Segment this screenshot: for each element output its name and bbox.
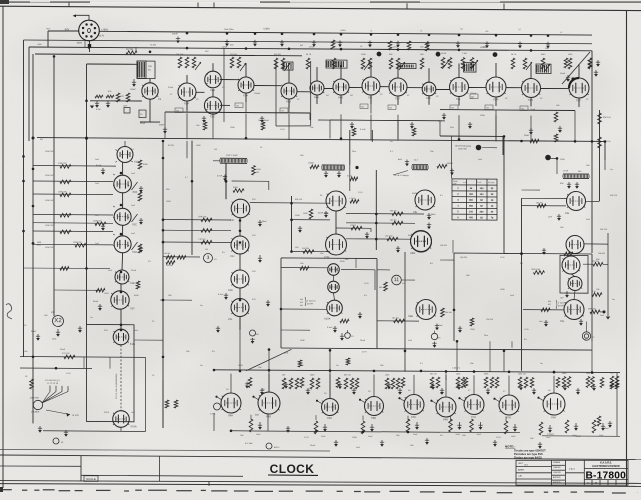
wire top row link2 xyxy=(254,84,281,86)
wire tube VR1 grid xyxy=(522,197,567,199)
wire VZB3 xyxy=(407,416,409,421)
meter P3 xyxy=(345,333,351,339)
capacitor CZB8 xyxy=(575,423,577,428)
svg-text:15K 1W: 15K 1W xyxy=(592,261,599,263)
svg-text:GND: GND xyxy=(52,339,57,341)
arrow T3 xyxy=(451,169,453,173)
resistor RZ22 xyxy=(586,376,590,387)
tube V5 X3A xyxy=(238,77,254,93)
resistor R5000 xyxy=(437,164,447,168)
resistor R330 xyxy=(233,189,244,193)
registration tick T4 xyxy=(406,3,408,9)
svg-text:100K: 100K xyxy=(310,375,315,377)
resistor RT6 xyxy=(274,58,278,69)
svg-text:1 KO: 1 KO xyxy=(524,329,529,331)
box right outline xyxy=(454,253,592,342)
resistor right R47K xyxy=(592,293,602,297)
junction dot J65 xyxy=(239,229,242,232)
svg-text:104 2W: 104 2W xyxy=(460,257,467,259)
resistor RB2 xyxy=(394,319,405,323)
tube VL1 X1B xyxy=(114,175,132,193)
tube VB0 xyxy=(566,235,584,253)
junction dot J14 xyxy=(547,34,550,37)
resistor RZ7 xyxy=(355,378,359,389)
junction dot J5 xyxy=(281,32,284,35)
capacitor extra CE17 xyxy=(426,438,428,442)
wire V1 top xyxy=(149,79,151,83)
svg-text:200.0: 200.0 xyxy=(104,412,110,414)
wire extra W1 xyxy=(212,112,214,138)
resistor RL5 xyxy=(60,230,71,234)
wire extra W4 xyxy=(397,121,399,139)
registration tick T1 xyxy=(68,2,70,7)
capacitor C1 10uF xyxy=(177,37,179,41)
tube VZ6 X7A xyxy=(464,394,484,414)
svg-text:30mF: 30mF xyxy=(431,214,437,216)
tube VB4 xyxy=(416,299,436,319)
tube VB1 xyxy=(328,264,340,276)
circle node 11 xyxy=(392,275,402,285)
resistor RT18 xyxy=(470,57,474,68)
ground X2 xyxy=(57,329,59,334)
svg-text:1m: 1m xyxy=(612,299,615,301)
svg-text:TRACED: TRACED xyxy=(553,466,561,469)
svg-text:10mF: 10mF xyxy=(530,109,536,111)
diagonal wire xyxy=(246,349,292,371)
master switch S1 xyxy=(33,400,42,409)
junction dot J51 xyxy=(473,370,476,373)
svg-text:X8M: X8M xyxy=(410,251,415,255)
capacitor extra CE2 xyxy=(351,122,353,126)
svg-text:X2L: X2L xyxy=(521,108,524,110)
wire top row link6 xyxy=(506,87,522,89)
capacitor CZ6 xyxy=(520,384,522,388)
wire rail y431 ext xyxy=(440,431,520,434)
capacitor extra CE16 xyxy=(381,440,383,444)
capacitor bus C9 xyxy=(397,41,399,45)
junction dot J13 xyxy=(530,34,533,37)
capacitor CZB5 xyxy=(480,422,482,427)
svg-text:1K 5W: 1K 5W xyxy=(480,47,486,49)
wire rail y357 xyxy=(20,355,146,358)
resistor RU1 xyxy=(331,40,335,49)
wire extra W3 xyxy=(329,120,331,138)
svg-text:X2L: X2L xyxy=(486,107,489,109)
capacitor bus C12 xyxy=(486,41,488,45)
switch arrow TO V29 xyxy=(46,410,70,414)
svg-text:NOTE:-: NOTE:- xyxy=(505,445,515,449)
svg-text:ELECTRONICS DIVISION: ELECTRONICS DIVISION xyxy=(592,466,620,468)
bottom scan edge dashes xyxy=(2,490,638,493)
svg-text:X2K: X2K xyxy=(228,288,233,292)
svg-text:11: 11 xyxy=(394,277,400,283)
wire rail y136 right xyxy=(440,135,503,137)
gridcap VZ5 xyxy=(432,401,437,404)
svg-text:1 KO: 1 KO xyxy=(500,257,505,259)
junction dot J69 xyxy=(55,367,58,370)
tube VZ3 X9B xyxy=(365,396,384,415)
tube VZ1 X8B xyxy=(258,392,280,414)
resistor RZ3 xyxy=(310,378,314,389)
wire ladder rail 3 xyxy=(33,213,113,216)
capacitor CZB2 xyxy=(371,424,373,429)
label box LB2 xyxy=(280,108,288,113)
junction dot K2 xyxy=(120,233,123,236)
svg-text:5000 4W: 5000 4W xyxy=(588,308,596,310)
wire V1 in xyxy=(90,100,142,103)
junction dot J18 xyxy=(340,48,343,51)
mid tube VM2 xyxy=(231,236,249,254)
svg-text:1MO: 1MO xyxy=(568,54,573,56)
svg-text:X32A: X32A xyxy=(130,424,137,428)
label box LB1 xyxy=(235,103,243,108)
resistor RTR1 xyxy=(564,58,568,68)
junction dot J28 xyxy=(85,99,88,102)
capacitor CZ5 xyxy=(458,383,460,387)
resistor extra RE11 xyxy=(60,267,69,271)
wire VZ8 top xyxy=(553,376,555,393)
delay transformer T2 xyxy=(322,164,345,166)
svg-text:X5A: X5A xyxy=(551,415,556,419)
tube VL5 X1F xyxy=(111,291,129,310)
resistor RR1 xyxy=(537,204,546,208)
wire ladder rail 5 xyxy=(33,230,113,233)
svg-text:27mF: 27mF xyxy=(217,175,223,177)
svg-text:3: 3 xyxy=(207,255,210,261)
wire drop x224 xyxy=(223,48,225,122)
resistor pair RH2 xyxy=(166,261,175,265)
box small right xyxy=(560,255,588,293)
tube V9 X2I xyxy=(362,77,380,95)
svg-text:CLOCK: CLOCK xyxy=(270,462,315,476)
capacitor C31 30uF xyxy=(530,128,532,132)
junction dot K10 xyxy=(404,350,407,353)
wire mid vert x349 xyxy=(349,130,351,165)
wire mid col c xyxy=(239,288,241,299)
svg-text:24.3: 24.3 xyxy=(414,159,418,161)
svg-text:25mF: 25mF xyxy=(360,340,366,342)
tube VZ5 X6B xyxy=(436,397,456,417)
svg-text:100K 2W: 100K 2W xyxy=(45,225,53,227)
svg-text:20.5K: 20.5K xyxy=(441,53,447,55)
svg-text:X4B: X4B xyxy=(408,314,413,318)
delay line DL2 xyxy=(536,64,551,74)
wire tube VR1 res xyxy=(522,205,567,207)
margin handwriting xyxy=(6,304,12,319)
svg-text:10K 4W: 10K 4W xyxy=(445,312,452,314)
svg-text:30mF: 30mF xyxy=(60,349,66,351)
svg-text:X2L: X2L xyxy=(176,110,179,112)
tube V13 X2M xyxy=(486,77,506,97)
svg-text:24.7K: 24.7K xyxy=(511,54,517,56)
resistor RZ12 xyxy=(436,377,440,388)
svg-text:1W: 1W xyxy=(256,172,259,174)
svg-text:30mF: 30mF xyxy=(524,135,530,137)
resistor RTR2 xyxy=(588,58,592,68)
border frame left line xyxy=(2,6,4,488)
svg-text:100K 2W: 100K 2W xyxy=(45,175,53,177)
junction dot J54 xyxy=(591,371,594,374)
resistor R20K a xyxy=(598,113,602,124)
wire extra W36 xyxy=(186,141,188,158)
wire V5 cath xyxy=(245,93,247,102)
bottom strip divider xyxy=(80,456,82,482)
junction dot J45 xyxy=(375,222,378,225)
svg-text:100K: 100K xyxy=(295,215,300,217)
svg-text:Observe phasing: Observe phasing xyxy=(455,145,472,148)
capacitor CZ4 xyxy=(432,383,434,387)
junction dot J35 xyxy=(85,137,88,140)
svg-text:100K 1W: 100K 1W xyxy=(518,374,526,376)
wire left col v4 xyxy=(121,253,124,270)
wire T1 down xyxy=(225,163,227,199)
wire VZ4 top xyxy=(413,375,415,395)
wire mid vert x226 xyxy=(225,164,227,199)
resistor RT22 xyxy=(568,58,572,69)
wire VZ3 top xyxy=(373,375,375,397)
junction dot big2 xyxy=(436,52,441,57)
wire V14 cath xyxy=(530,98,532,107)
tube V14 X2N xyxy=(522,78,541,97)
capacitor bottom extra xyxy=(261,388,263,392)
svg-text:0.1mF: 0.1mF xyxy=(360,129,366,131)
junction dot K17 xyxy=(162,356,165,359)
wire extra W33 xyxy=(452,240,454,253)
wire extra W24 xyxy=(288,99,290,113)
capacitor CZ0 xyxy=(246,382,248,386)
junction dot K4 xyxy=(120,291,123,294)
svg-text:100KC: 100KC xyxy=(130,89,137,91)
resistor extra RE6 xyxy=(340,319,349,323)
svg-text:500 1W: 500 1W xyxy=(390,210,397,212)
resistor RT2 xyxy=(185,57,189,68)
svg-text:25m: 25m xyxy=(484,335,488,337)
wire VZ1 top xyxy=(268,374,270,392)
svg-text:APPRVD: APPRVD xyxy=(553,476,561,479)
wire extra W8 xyxy=(604,160,606,170)
wire V6 cath xyxy=(288,99,290,108)
border frame top line xyxy=(0,6,641,10)
resistor RM3 xyxy=(201,240,212,244)
tube VZ8 X5A xyxy=(543,393,565,415)
junction dot J49 xyxy=(373,370,376,373)
svg-text:X7A: X7A xyxy=(471,415,476,419)
svg-text:272,74,138 mS (MODIFIED): 272,74,138 mS (MODIFIED) xyxy=(116,373,118,399)
resistor RT10 xyxy=(361,58,365,69)
svg-text:100K: 100K xyxy=(166,201,171,203)
tube V12 X2L xyxy=(450,77,469,96)
capacitor C33 30uF xyxy=(37,334,39,338)
wire right vert x617 xyxy=(616,373,618,437)
resistor extra RE7 xyxy=(470,318,474,326)
wire V8 anode xyxy=(340,65,342,79)
border frame right line xyxy=(626,11,628,487)
tube VB7 xyxy=(568,276,582,290)
rail to VM2 xyxy=(163,229,231,232)
wire VB8 in xyxy=(523,309,564,311)
delay line DL4 xyxy=(326,60,347,68)
svg-text:X2L: X2L xyxy=(228,317,233,321)
wire mid vert x372 xyxy=(371,130,373,142)
wire top row link3 xyxy=(324,87,333,89)
wire loop h126 xyxy=(276,125,311,128)
svg-text:100K: 100K xyxy=(230,127,235,129)
resistor extra RE14 xyxy=(165,400,169,408)
resistor RT19 xyxy=(511,58,515,69)
wire drop left xyxy=(47,31,49,47)
resistor RL6 xyxy=(75,243,86,247)
wire left col v3 xyxy=(122,225,124,236)
svg-text:150 2W: 150 2W xyxy=(166,265,173,267)
wire left col v5 xyxy=(120,284,122,291)
svg-text:30mF: 30mF xyxy=(318,213,324,215)
wire V10 cath xyxy=(397,96,399,105)
wire right vert x592 xyxy=(591,51,593,253)
svg-text:100mF: 100mF xyxy=(470,93,477,95)
socket X2 xyxy=(53,315,64,326)
junction dot J50 xyxy=(445,370,448,373)
wire ladder rail 1 xyxy=(33,180,113,183)
resistor RZ23 xyxy=(591,376,595,387)
resistor RZ17 xyxy=(495,377,499,388)
junction dot J22 xyxy=(162,157,165,160)
cap 4uF xyxy=(406,160,408,164)
trimmer arrow TA0 xyxy=(195,62,201,70)
resistor RL4 xyxy=(95,222,106,226)
svg-text:27O 2W: 27O 2W xyxy=(62,353,69,355)
tube VC4 xyxy=(411,230,432,251)
svg-text:L mH: L mH xyxy=(463,182,468,184)
resistor RZB9 xyxy=(592,420,596,433)
resistor RZ19 xyxy=(524,377,528,388)
wire extra W29 xyxy=(109,357,111,368)
resistor RZ6 xyxy=(350,378,354,389)
capacitor CL1 xyxy=(102,168,104,172)
svg-text:1W: 1W xyxy=(214,149,217,151)
svg-text:1m: 1m xyxy=(540,363,543,365)
svg-text:25mF: 25mF xyxy=(310,445,316,447)
junction dot J63 xyxy=(520,252,523,255)
wire extra W26 xyxy=(213,413,215,431)
resistor RZ8 xyxy=(385,378,389,389)
resistor RZ2 xyxy=(295,378,299,389)
tube V1 xyxy=(142,83,158,100)
wire loop v276 xyxy=(275,61,277,126)
divider box xyxy=(87,324,135,421)
vert x451 table xyxy=(451,136,453,178)
resistor RC3 xyxy=(392,221,403,225)
wire V2 cath xyxy=(186,101,188,110)
capacitor bus C7 xyxy=(339,40,341,44)
resistor RZB2 xyxy=(361,421,365,434)
wire VC link xyxy=(335,211,337,234)
capacitor bus C5 xyxy=(281,40,283,44)
svg-text:24 7K: 24 7K xyxy=(306,54,312,56)
junction dot J16 xyxy=(245,47,248,50)
capacitor CTR1 xyxy=(597,60,599,64)
svg-text:10mF: 10mF xyxy=(222,47,228,49)
capacitor extra CE5 xyxy=(559,126,561,130)
svg-text:1 KO: 1 KO xyxy=(304,437,309,439)
trimmer arrow TA2 xyxy=(284,63,290,71)
svg-text:X6B: X6B xyxy=(443,417,448,421)
resistor extra RE2 xyxy=(352,128,356,136)
capacitor CL3 xyxy=(99,304,101,308)
resistor RC1 xyxy=(350,200,359,204)
wire V5 anode xyxy=(245,63,247,77)
wire extra W23 xyxy=(245,93,247,113)
junction dot mid xyxy=(545,155,551,161)
wire mid col a xyxy=(239,218,241,236)
svg-text:R Ohms: R Ohms xyxy=(488,182,495,184)
T2 diodes xyxy=(325,171,327,175)
svg-text:Total 250m: Total 250m xyxy=(224,28,234,31)
svg-text:50K 1W: 50K 1W xyxy=(295,199,302,201)
resistor R556 xyxy=(554,112,558,122)
arrow below crystal xyxy=(133,79,135,84)
svg-text:0.1mF: 0.1mF xyxy=(218,294,224,296)
junction dot J62 xyxy=(453,309,456,312)
wire gap filler 2 xyxy=(281,329,310,331)
wire V6 anode xyxy=(288,69,290,83)
svg-text:0.1mF: 0.1mF xyxy=(327,327,333,329)
svg-text:1W 2W: 1W 2W xyxy=(164,253,170,255)
wire V10 anode xyxy=(397,64,399,78)
resistor RB3 xyxy=(441,308,445,317)
resistor RB5 xyxy=(541,308,550,312)
svg-text:500K: 500K xyxy=(484,374,489,376)
svg-text:100K: 100K xyxy=(104,293,109,295)
junction dot K3 xyxy=(120,271,123,274)
title block xyxy=(516,460,628,485)
wire V2 anode xyxy=(186,75,188,83)
resistor RB1 xyxy=(384,282,388,291)
wire top row y112 xyxy=(165,111,310,114)
wire rail y121 xyxy=(318,119,445,122)
wire V9 anode xyxy=(370,63,372,77)
svg-text:D-TIMER: D-TIMER xyxy=(31,412,40,414)
resistor R100ohm xyxy=(252,165,256,175)
svg-text:10mF: 10mF xyxy=(560,73,566,75)
wire vert x349b xyxy=(349,165,351,191)
capacitor C30 1uF xyxy=(443,113,445,117)
gridcap VZ0 xyxy=(217,397,222,400)
tube VB8 xyxy=(564,299,584,319)
resistor extra RE8 xyxy=(298,360,302,367)
resistor right R5000 xyxy=(590,310,600,314)
resistor RZ10 xyxy=(396,378,400,389)
wire T1 right xyxy=(232,180,269,182)
svg-text:117V: 117V xyxy=(99,36,105,38)
gridcap VZ2 xyxy=(318,401,323,404)
wire V11 anode xyxy=(428,68,430,82)
meter P1 xyxy=(582,332,590,340)
svg-text:ABBR.: ABBR. xyxy=(518,468,525,471)
junction dot J64 xyxy=(239,219,242,222)
svg-text:750O 10W: 750O 10W xyxy=(531,269,540,271)
svg-text:1000O: 1000O xyxy=(308,163,314,165)
junction dot J2 xyxy=(186,32,189,35)
capacitor extra CE12 xyxy=(359,312,361,316)
wire VB right xyxy=(341,269,375,271)
svg-text:38A: 38A xyxy=(255,414,259,417)
tube V4 X2C xyxy=(204,97,221,114)
junction dot K7 xyxy=(225,180,228,183)
tube VZ7 X7B xyxy=(499,395,519,415)
svg-text:X1F: X1F xyxy=(130,306,135,310)
resistor R1K xyxy=(30,379,34,389)
resistor R274 xyxy=(350,177,358,181)
